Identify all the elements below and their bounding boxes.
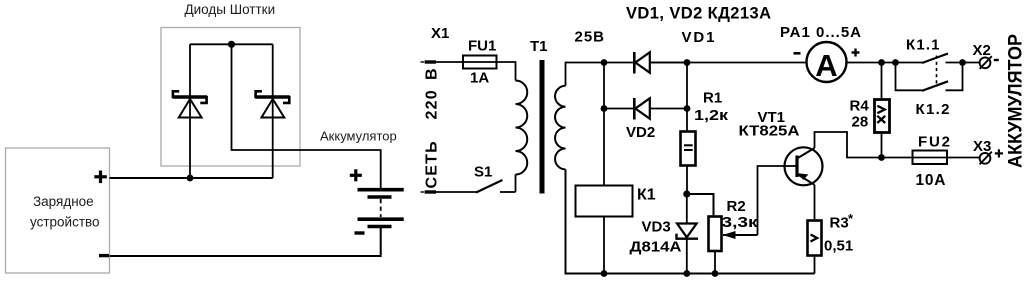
- svg-text:1А: 1А: [470, 70, 489, 87]
- wire: charger + to diode anodes: [110, 177, 273, 179]
- wire: left diode vertical: [189, 44, 191, 178]
- svg-text:FU1: FU1: [468, 38, 496, 55]
- svg-text:РА1 0...5А: РА1 0...5А: [780, 24, 861, 41]
- svg-text:10А: 10А: [916, 172, 946, 189]
- primary winding: [516, 81, 528, 175]
- svg-text:0,51: 0,51: [824, 238, 853, 255]
- ammeter PA1 0...5A: [780, 24, 861, 83]
- svg-text:КТ825А: КТ825А: [739, 123, 800, 140]
- svg-text:К1.1: К1.1: [906, 37, 940, 54]
- svg-text:S1: S1: [474, 164, 492, 181]
- svg-text:25В: 25В: [575, 29, 605, 46]
- label СЕТЬ 220 В: [424, 68, 441, 188]
- connector X3: [973, 138, 1003, 164]
- svg-text:VD3: VD3: [642, 219, 671, 236]
- svg-text:устройство: устройство: [30, 215, 100, 230]
- wire: VD2 branch: [604, 108, 634, 110]
- core: [540, 60, 545, 194]
- wire: main positive rail to ammeter: [650, 62, 807, 64]
- wire: cathode top rail: [190, 43, 273, 45]
- wire: cathode node down to R1: [686, 63, 688, 132]
- node: VD3 on rail: [683, 270, 690, 277]
- svg-text:АККУМУЛЯТОР: АККУМУЛЯТОР: [1006, 34, 1024, 168]
- svg-text:3,3к: 3,3к: [722, 214, 759, 231]
- node: contacts right junction: [959, 59, 966, 66]
- battery GB (Аккумулятор): [350, 169, 404, 233]
- svg-text:X1: X1: [431, 25, 449, 42]
- relay contact K1.1: [906, 37, 980, 64]
- trimmer resistor R2 3,3k: [709, 198, 759, 251]
- wire: collector to FU2 line: [815, 132, 913, 158]
- diode VD2: [634, 98, 687, 120]
- transformer T1: [516, 38, 566, 194]
- svg-text:VD1, VD2 КД213А: VD1, VD2 КД213А: [626, 5, 771, 23]
- svg-text:Зарядное: Зарядное: [33, 194, 94, 209]
- wire: R1 to VD3 node: [686, 166, 688, 195]
- wire: secondary top to rectifier node: [566, 63, 634, 86]
- node: secondary top junction: [601, 59, 608, 66]
- svg-text:220: 220: [424, 89, 441, 119]
- svg-text:FU2: FU2: [918, 134, 950, 151]
- schottky diode D_left: [172, 91, 207, 117]
- svg-text:1,2к: 1,2к: [694, 107, 729, 124]
- svg-text:Д814А: Д814А: [630, 239, 682, 256]
- node: VD2 cathode junction: [684, 105, 691, 112]
- node: relay coil on rail: [601, 270, 608, 277]
- wire: branch to R2 top: [687, 194, 714, 217]
- svg-text:К1.2: К1.2: [916, 101, 950, 118]
- node: junction dot on + wire: [187, 175, 194, 182]
- wire: ammeter to contacts: [847, 62, 923, 64]
- wire: wiper to VT1 base: [758, 166, 786, 235]
- resistor R4 28: [850, 63, 890, 158]
- node: VD2 branch junction: [601, 105, 608, 112]
- fuse FU1 1A: [463, 38, 497, 87]
- zener diode VD3 Д814А: [630, 219, 699, 256]
- svg-text:R3: R3: [830, 215, 849, 232]
- wire: bottom rail: [566, 169, 815, 273]
- node: R4 bottom junction: [878, 154, 885, 161]
- node: K1.2 branch junction: [892, 59, 899, 66]
- wire: vertical to relay coil: [603, 63, 605, 186]
- svg-text:28: 28: [852, 114, 869, 131]
- svg-text:А: А: [815, 48, 837, 83]
- svg-text:VD2: VD2: [626, 124, 655, 141]
- node: R4 top junction: [878, 59, 885, 66]
- node: R1/VD3/R2 junction: [683, 190, 690, 197]
- svg-text:R1: R1: [703, 90, 722, 107]
- connector X2: [973, 42, 999, 69]
- svg-text:Т1: Т1: [530, 38, 548, 55]
- wire: right diode vertical: [272, 44, 274, 178]
- secondary winding: [555, 86, 565, 170]
- mechanical link dashed: [936, 56, 938, 85]
- svg-text:R4: R4: [850, 98, 870, 115]
- wire: emitter to R3: [814, 185, 816, 221]
- switch S1: [436, 164, 516, 193]
- wire: battery minus to charger minus: [110, 227, 381, 256]
- resistor R3* 0,51: [808, 211, 855, 256]
- schottky diode D_right: [255, 91, 290, 117]
- svg-text:VD1: VD1: [682, 29, 715, 46]
- svg-text:X3: X3: [973, 138, 991, 155]
- relay contact K1.2: [896, 63, 963, 119]
- schottky diode box (Диоды Шоттки): [161, 28, 300, 167]
- wire: FU1 to T1 primary: [497, 62, 516, 81]
- wire: R3 to bottom rail: [814, 256, 816, 274]
- wire: FU2 to X3: [947, 157, 980, 159]
- svg-text:К1: К1: [637, 187, 656, 204]
- svg-text:X2: X2: [973, 42, 991, 59]
- svg-text:СЕТЬ: СЕТЬ: [424, 140, 441, 188]
- wiper arrow: [723, 234, 758, 236]
- node: R2 on rail: [712, 270, 719, 277]
- svg-text:Диоды Шоттки: Диоды Шоттки: [185, 2, 276, 17]
- svg-text:Аккумулятор: Аккумулятор: [320, 129, 397, 144]
- wire: VD3 to bottom rail: [686, 239, 688, 274]
- wire: X1 pin1 to FU1: [436, 61, 463, 63]
- node: top junction dot: [228, 41, 235, 48]
- transistor VT1 КТ825А: [739, 109, 823, 185]
- wire: relay coil bottom to rail: [603, 217, 605, 274]
- wire: middle vertical from top junction to battery: [232, 44, 381, 188]
- wire: R2 bottom to rail: [714, 251, 716, 274]
- connector X1 pin 2: [421, 191, 437, 193]
- svg-text:R2: R2: [727, 198, 746, 215]
- relay coil K1: [576, 186, 656, 217]
- resistor R1 1,2k: [681, 90, 729, 166]
- node: VD1 cathode junction: [684, 59, 691, 66]
- svg-text:В: В: [424, 68, 441, 80]
- fuse FU2 10A: [913, 134, 951, 190]
- diode VD1: [634, 52, 687, 74]
- connector X1 pin 1: [421, 25, 450, 62]
- wire: node to VD3: [686, 194, 688, 224]
- charger block (Зарядное устройство): [6, 148, 110, 273]
